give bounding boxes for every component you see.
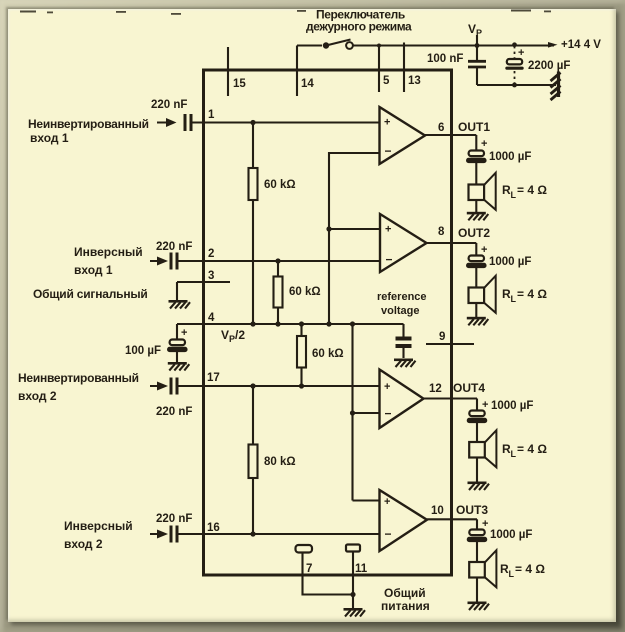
node rail R2: [275, 321, 280, 326]
svg-text:16: 16: [207, 522, 220, 534]
node pin5 top: [377, 44, 381, 48]
wire U1c output to pin12: [424, 397, 478, 399]
node pin7/11 join: [350, 592, 355, 597]
svg-text:−: −: [385, 527, 392, 541]
input arrow pin1: [166, 118, 177, 127]
wire OUT1: [475, 135, 477, 150]
svg-text:−: −: [385, 144, 392, 158]
svg-text:P: P: [476, 28, 482, 38]
capacitor C6 2200uF body: [507, 59, 522, 64]
op-amp U1a triangle: [380, 107, 426, 164]
svg-text:3: 3: [208, 270, 214, 282]
pin 11 pad: [346, 545, 360, 552]
wire LS3 to ground: [476, 578, 478, 602]
input arrow pin2: [157, 257, 168, 266]
svg-text:V: V: [221, 328, 229, 342]
capacitor C7 100uF lead: [176, 324, 178, 339]
capacitor C11 1000uF: [467, 151, 485, 163]
wire U1b noninverting branch: [329, 228, 380, 230]
input arrow pin16: [157, 530, 168, 539]
svg-text:2200 µF: 2200 µF: [528, 60, 570, 72]
IC box U1 outline: [204, 70, 452, 575]
svg-text:60 kΩ: 60 kΩ: [312, 348, 344, 360]
svg-text:4: 4: [208, 312, 215, 324]
svg-text:1000 µF: 1000 µF: [490, 529, 532, 541]
svg-text:+14 4 V: +14 4 V: [561, 39, 601, 51]
svg-text:OUT2: OUT2: [458, 226, 490, 240]
wire OUT2: [475, 243, 477, 255]
switch S1 contact dot: [323, 42, 329, 48]
speaker LS3: [469, 550, 496, 587]
svg-text:= 4 Ω: = 4 Ω: [517, 287, 547, 301]
node rail fb1: [326, 321, 331, 326]
switch S1 open contact: [346, 42, 353, 49]
svg-text:+: +: [482, 518, 488, 530]
wire C10 to ground: [402, 346, 404, 358]
resistor R1 60k leads: [252, 123, 254, 325]
wire C5 to ground rail: [476, 67, 478, 85]
svg-text:1000 µF: 1000 µF: [489, 256, 531, 268]
capacitor C10 reference lead: [402, 324, 404, 337]
wire pin4 Vp/2 rail: [177, 323, 404, 325]
pin 14 stub: [296, 46, 298, 97]
node pin17/R3: [299, 383, 304, 388]
svg-text:Неинвертированный: Неинвертированный: [28, 117, 149, 131]
node pin1/R1: [250, 120, 255, 125]
svg-text:220 nF: 220 nF: [156, 241, 192, 253]
svg-text:voltage: voltage: [381, 305, 420, 317]
svg-text:+: +: [384, 496, 390, 508]
svg-text:OUT1: OUT1: [458, 120, 490, 134]
wire C12 to speaker: [475, 267, 477, 288]
wire C14 to speaker: [476, 541, 478, 563]
resistor R2 60k body: [274, 277, 283, 308]
svg-text:9: 9: [439, 331, 445, 343]
svg-text:13: 13: [408, 75, 421, 87]
svg-text:V: V: [468, 22, 476, 36]
wire LS2 to ground: [475, 303, 477, 317]
wire OUT4: [476, 399, 478, 411]
svg-text:8: 8: [438, 226, 445, 238]
svg-text:+: +: [181, 327, 187, 339]
node 2200uF bottom: [512, 83, 517, 88]
resistor R1 60k body: [249, 168, 258, 200]
capacitor C4 220nF plates: [171, 526, 177, 543]
input arrow pin17: [157, 382, 168, 391]
svg-text:= 4 Ω: = 4 Ω: [517, 442, 547, 456]
resistor R3 60k body: [297, 336, 306, 368]
node pin2/R2: [275, 258, 280, 263]
svg-text:6: 6: [438, 122, 444, 134]
capacitor C1 220nF plates: [185, 114, 191, 131]
svg-text:−: −: [385, 407, 392, 421]
svg-text:вход 2: вход 2: [64, 537, 103, 551]
wire OUT3: [476, 519, 478, 529]
node rail R1: [250, 321, 255, 326]
+14.4V arrow head: [548, 42, 558, 48]
pin 5 stub: [378, 46, 380, 93]
ground pin3: [169, 300, 191, 309]
capacitor C14 1000uF: [468, 530, 486, 542]
pin 9 stub: [426, 343, 474, 345]
svg-text:вход 2: вход 2: [18, 389, 57, 403]
wire pin7 down: [303, 553, 354, 595]
ground LS3: [468, 602, 490, 611]
svg-text:reference: reference: [377, 291, 427, 303]
wire U1d noninverting branch: [353, 499, 380, 501]
svg-text:Неинвертированный: Неинвертированный: [18, 371, 139, 385]
svg-text:= 4 Ω: = 4 Ω: [515, 562, 545, 576]
node pin16/R4: [250, 531, 255, 536]
wire pin11 to ground: [352, 552, 354, 609]
wire switch rail to +14.4V: [297, 44, 554, 46]
resistor R3 60k leads: [300, 324, 302, 386]
svg-text:17: 17: [207, 372, 220, 384]
capacitor C5 100nF lead: [476, 46, 478, 61]
svg-text:220 nF: 220 nF: [151, 99, 187, 111]
node Vp: [475, 43, 480, 48]
svg-text:10: 10: [431, 505, 444, 517]
svg-text:питания: питания: [381, 599, 430, 613]
svg-text:220 nF: 220 nF: [156, 513, 192, 525]
svg-text:60 kΩ: 60 kΩ: [264, 179, 296, 191]
wire pin1 input: [157, 121, 379, 123]
svg-text:7: 7: [306, 563, 312, 575]
speaker LS4: [469, 430, 496, 467]
svg-text:60 kΩ: 60 kΩ: [289, 286, 321, 298]
wire C7 to ground: [176, 351, 178, 363]
svg-text:+: +: [482, 399, 488, 411]
capacitor C5 100nF plates: [468, 61, 486, 67]
node rail fb2: [350, 321, 355, 326]
capacitor C3 220nF plates: [171, 378, 177, 395]
wire U1a inverting feedback: [329, 153, 380, 324]
svg-text:Общий сигнальный: Общий сигнальный: [33, 287, 148, 301]
capacitor C12 1000uF: [467, 256, 485, 268]
ground LS2: [467, 317, 489, 326]
pin 15 stub: [227, 47, 229, 96]
pin 7 pad: [296, 545, 313, 553]
svg-text:L: L: [511, 190, 517, 200]
capacitor C10 reference plates: [396, 339, 412, 347]
svg-text:OUT4: OUT4: [453, 381, 485, 395]
resistor R4 80k leads: [252, 386, 254, 534]
svg-text:11: 11: [355, 563, 368, 575]
svg-text:Инверсный: Инверсный: [74, 245, 143, 259]
wire pin2 input: [150, 260, 379, 262]
capacitor C6 2200uF dashed leads: [514, 46, 516, 85]
svg-text:Общий: Общий: [384, 586, 426, 600]
svg-text:1000 µF: 1000 µF: [489, 151, 531, 163]
wire C11 to speaker: [475, 162, 477, 185]
ground top right chassis: [551, 72, 561, 101]
svg-text:OUT3: OUT3: [456, 503, 488, 517]
resistor R2 60k leads: [277, 261, 279, 324]
svg-text:+: +: [384, 381, 390, 393]
svg-text:+: +: [518, 47, 524, 59]
wire Vp/2 to U1c inverting: [353, 324, 380, 501]
svg-text:+: +: [481, 138, 487, 150]
svg-text:14: 14: [301, 78, 314, 90]
svg-text:15: 15: [233, 78, 246, 90]
svg-text:+: +: [385, 224, 391, 236]
ground LS1: [467, 212, 489, 221]
svg-text:1000 µF: 1000 µF: [491, 400, 533, 412]
ground C7: [168, 362, 190, 371]
speaker LS2: [469, 276, 496, 313]
svg-text:вход 1: вход 1: [74, 263, 113, 277]
svg-text:5: 5: [383, 75, 390, 87]
pin 13 stub: [403, 43, 405, 93]
wire LS1 to ground: [475, 200, 477, 212]
svg-text:+: +: [481, 244, 487, 256]
svg-text:80 kΩ: 80 kΩ: [264, 456, 296, 468]
svg-text:/2: /2: [235, 328, 245, 342]
speaker LS1: [469, 173, 496, 210]
node 2200uF top: [512, 42, 517, 47]
svg-text:1: 1: [208, 109, 215, 121]
ground LS4: [468, 482, 490, 491]
svg-text:L: L: [511, 294, 517, 304]
scan speckles top: [20, 10, 551, 15]
svg-text:12: 12: [429, 383, 442, 395]
resistor R4 80k body: [249, 445, 258, 479]
wire C13 to speaker: [476, 422, 478, 443]
ground pins 7 11: [344, 608, 366, 617]
capacitor C7 100uF electrolytic: [168, 340, 186, 352]
ground C10 reference: [394, 359, 416, 368]
svg-text:100 nF: 100 nF: [427, 53, 463, 65]
wire pin3 signal ground stub: [177, 281, 230, 283]
svg-text:2: 2: [208, 248, 214, 260]
capacitor C13 1000uF: [468, 411, 486, 423]
op-amp U1c triangle: [380, 370, 424, 429]
svg-text:−: −: [386, 253, 393, 267]
node pin17/R4: [250, 383, 255, 388]
node U1b plus: [326, 226, 331, 231]
op-amp U1d triangle: [380, 490, 428, 551]
op-amp U1b triangle: [380, 214, 427, 272]
svg-text:100 µF: 100 µF: [125, 345, 161, 357]
wire U1d output to pin10: [427, 518, 477, 520]
node U1c minus: [350, 410, 355, 415]
svg-text:= 4 Ω: = 4 Ω: [517, 183, 547, 197]
node rail R3: [299, 321, 304, 326]
svg-text:Инверсный: Инверсный: [64, 519, 133, 533]
svg-text:+: +: [384, 117, 390, 129]
wire pin3 to ground: [176, 282, 178, 300]
switch S1 lever: [326, 40, 351, 46]
svg-text:L: L: [509, 569, 515, 579]
ground rail top right: [477, 84, 556, 86]
wire LS4 to ground: [476, 458, 478, 482]
capacitor C2 220nF plates: [171, 253, 177, 270]
svg-text:вход 1: вход 1: [30, 131, 69, 145]
wire pin16 input: [150, 533, 379, 535]
wire U1a output to pin6: [425, 134, 476, 136]
wire pin17 input: [150, 385, 379, 387]
svg-text:220 nF: 220 nF: [156, 406, 192, 418]
svg-text:дежурного режима: дежурного режима: [306, 20, 412, 34]
wire U1b output to pin8: [427, 242, 477, 244]
wire Vp stub: [476, 35, 478, 46]
svg-text:L: L: [511, 449, 517, 459]
